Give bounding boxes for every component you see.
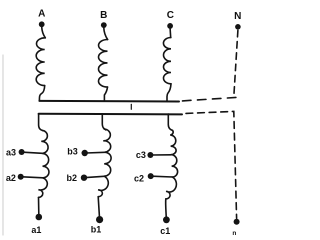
node A terminal dot (39, 21, 45, 27)
node a1 terminal dot (36, 214, 43, 221)
tap c2 dot (148, 173, 154, 179)
primary star bus dashed extension to N (183, 97, 237, 101)
tap a3 dot (19, 149, 25, 155)
svg-text:N: N (234, 11, 241, 22)
node N terminal dot (235, 24, 241, 30)
svg-text:c1: c1 (160, 226, 170, 236)
tap b2 lead (86, 176, 105, 177)
wire bus into secondary winding c (168, 114, 172, 130)
tap b3 dot (82, 150, 88, 156)
secondary winding phase a (39, 130, 49, 197)
secondary winding phase c (166, 130, 178, 199)
wire bus into secondary winding b (102, 114, 106, 130)
tap b2 dot (81, 175, 87, 181)
wire B dot to coil (104, 28, 108, 40)
svg-text:B: B (100, 10, 107, 21)
tap a3 lead (23, 152, 42, 153)
primary winding phase C (163, 38, 171, 84)
secondary star bus (solid) (39, 113, 182, 116)
node c1 terminal dot (163, 216, 170, 223)
tap a2 lead (22, 177, 43, 178)
svg-text:C: C (167, 10, 174, 21)
tick mark under primary bus (130, 104, 132, 109)
svg-text:a1: a1 (31, 225, 41, 235)
dashed neutral wire N down to primary star bus (234, 30, 238, 95)
svg-text:A: A (38, 9, 45, 20)
svg-text:b3: b3 (67, 147, 78, 157)
node b1 terminal dot (96, 216, 103, 223)
wire bus corner into secondary winding a (39, 114, 43, 130)
svg-text:a3: a3 (6, 148, 16, 158)
svg-text:b1: b1 (91, 224, 102, 234)
scan smudge left edge (2, 55, 4, 235)
tap c3 dot (147, 152, 153, 158)
primary star bus (solid) (39, 100, 179, 103)
svg-text:c3: c3 (136, 150, 146, 160)
primary winding phase B (98, 39, 107, 87)
node B terminal dot (101, 22, 107, 28)
wire C dot to coil (169, 28, 172, 37)
svg-text:b2: b2 (67, 173, 78, 183)
wire A coil bottom corner to bus (39, 86, 44, 101)
wire winding a bottom to a1 (38, 197, 40, 213)
svg-text:n: n (232, 230, 236, 237)
wire C coil bottom to bus (167, 84, 171, 101)
secondary star bus dashed extension and drop to n (186, 111, 237, 218)
svg-text:c2: c2 (134, 173, 144, 183)
wire A dot to coil (42, 27, 46, 38)
secondary winding phase b (98, 129, 111, 197)
tap a2 dot (18, 174, 24, 180)
tap c3 lead (152, 154, 171, 156)
tap b3 lead (86, 151, 105, 154)
tap c2 lead (152, 175, 172, 178)
node n terminal dot (234, 219, 240, 225)
primary winding phase A (36, 38, 45, 86)
svg-text:a2: a2 (6, 173, 16, 183)
wire B coil bottom to bus (104, 87, 107, 101)
wire winding c bottom to c1 (165, 199, 168, 217)
wire winding b bottom to b1 (98, 197, 99, 217)
node C terminal dot (167, 23, 173, 29)
